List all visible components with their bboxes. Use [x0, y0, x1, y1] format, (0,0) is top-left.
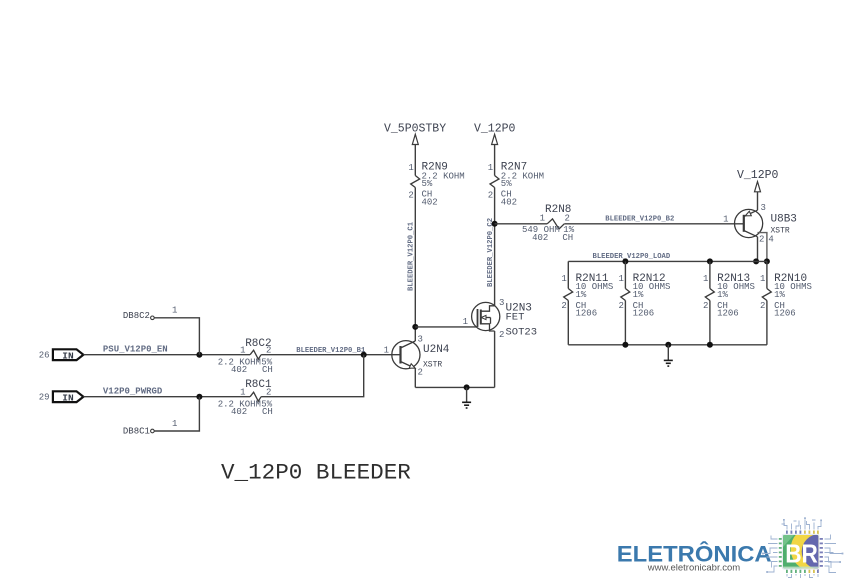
R2N10 value labels	[774, 282, 812, 318]
R2N12 value labels	[633, 282, 671, 318]
svg-text:1: 1	[488, 163, 493, 173]
node dots on load rail under U8B3	[753, 258, 770, 264]
R8C2 pin numbers	[240, 346, 271, 356]
svg-text:2: 2	[760, 301, 765, 311]
svg-text:1206: 1206	[576, 309, 598, 319]
power symbol V_12P0 (top)	[474, 123, 516, 145]
logo chip	[779, 527, 837, 573]
svg-text:1: 1	[561, 274, 566, 284]
wire bottom (U2N4 emitter to FET source)	[415, 386, 494, 388]
svg-text:DB8C1: DB8C1	[123, 427, 150, 437]
wire DB8C1 to PWRGD wire	[154, 397, 199, 431]
svg-text:2: 2	[499, 330, 504, 340]
svg-text:BLEEDER_V12P0_LOAD: BLEEDER_V12P0_LOAD	[593, 253, 671, 261]
wire U2N4 emitter down	[414, 369, 416, 388]
svg-text:U8B3: U8B3	[771, 214, 797, 226]
wire FET source down	[494, 331, 496, 387]
svg-text:R2N8: R2N8	[545, 204, 571, 216]
U8B3 pin numbers	[723, 203, 774, 244]
wire rail BLEEDER_V12P0_LOAD	[568, 260, 767, 262]
transistor U8B3 (PNP)	[735, 209, 763, 237]
svg-text:3: 3	[761, 203, 766, 213]
svg-text:PSU_V12P0_EN: PSU_V12P0_EN	[103, 345, 168, 355]
svg-text:DB8C2: DB8C2	[123, 311, 150, 321]
wire V_12P0 to R2N7 pin1	[494, 145, 496, 176]
svg-text:26: 26	[39, 351, 50, 361]
resistor R8C2	[250, 350, 261, 359]
R8C1 pin numbers	[240, 388, 271, 398]
svg-text:2: 2	[618, 301, 623, 311]
node junction R2N7/R2N8	[492, 221, 498, 227]
power symbol V_12P0 (right)	[737, 169, 779, 192]
svg-text:V_12P0 BLEEDER: V_12P0 BLEEDER	[221, 460, 411, 486]
svg-text:2: 2	[408, 191, 413, 201]
wire R2N9 pin2 to node BLEEDER_V12P0_C1	[414, 188, 416, 342]
svg-text:XSTR: XSTR	[423, 360, 442, 369]
resistor R2N8	[547, 219, 564, 229]
node dots on load rail	[622, 258, 713, 264]
node junction DB8C1/PWRGD	[196, 394, 202, 400]
transistor U2N3 (N-MOSFET)	[472, 302, 500, 331]
node dots on bottom rail	[622, 342, 713, 348]
wire V_12P0 to U8B3 emitter	[757, 192, 759, 210]
svg-text:402: 402	[422, 197, 438, 207]
node junction ground	[464, 384, 470, 390]
svg-text:2: 2	[703, 301, 708, 311]
svg-text:2: 2	[759, 234, 764, 244]
svg-text:IN: IN	[62, 350, 74, 361]
R2N8 pin numbers	[540, 214, 570, 224]
node junction U2N4 collector / gate wire	[412, 324, 418, 330]
resistor R2N11 column	[564, 261, 573, 344]
wire U2N4 collector junction to FET gate	[415, 326, 477, 328]
R8C1 value labels	[218, 399, 273, 417]
svg-text:IN: IN	[62, 392, 74, 403]
testpoint DB8C1	[123, 427, 154, 437]
R2N8 value labels	[522, 225, 575, 243]
svg-text:XSTR: XSTR	[771, 227, 790, 236]
R2N13 pin numbers	[703, 274, 708, 311]
svg-text:www.eletronicabr.com: www.eletronicabr.com	[647, 563, 740, 574]
ground (resistor bank)	[664, 345, 673, 366]
wire R2N7 pin2 down to FET drain	[494, 188, 496, 307]
wire R8C2 pin2 to U2N4 base	[261, 354, 400, 356]
svg-text:1: 1	[408, 163, 413, 173]
svg-text:402: 402	[231, 365, 247, 375]
svg-text:1: 1	[723, 215, 728, 225]
svg-text:2: 2	[488, 191, 493, 201]
ground (bottom)	[462, 387, 471, 408]
resistor R2N9	[411, 176, 420, 188]
svg-text:29: 29	[39, 393, 50, 403]
svg-text:3: 3	[418, 335, 423, 345]
svg-text:1: 1	[760, 274, 765, 284]
wire V12P0_PWRGD	[83, 396, 250, 398]
resistor R2N12 column	[621, 261, 630, 344]
svg-text:1: 1	[172, 419, 177, 429]
R2N13 value labels	[717, 282, 755, 318]
svg-text:1: 1	[463, 317, 468, 327]
node junction B1	[361, 352, 367, 358]
wire bottom rail of resistor bank	[568, 344, 767, 346]
svg-text:BLEEDER_V12P0_C2: BLEEDER_V12P0_C2	[487, 218, 495, 287]
svg-text:V12P0_PWRGD: V12P0_PWRGD	[103, 387, 163, 397]
svg-text:1%: 1%	[774, 290, 785, 300]
wire R8C1 pin2 to B1 junction	[261, 355, 364, 397]
svg-text:1: 1	[172, 306, 177, 316]
transistor U2N4 (NPN)	[392, 341, 420, 369]
svg-text:1: 1	[384, 346, 389, 356]
svg-text:FET: FET	[506, 312, 525, 324]
svg-text:5%: 5%	[422, 179, 433, 189]
svg-text:402: 402	[231, 407, 247, 417]
R2N11 value labels	[576, 282, 614, 318]
svg-text:1: 1	[703, 274, 708, 284]
svg-text:1206: 1206	[633, 309, 655, 319]
resistor R2N10 column	[762, 261, 771, 344]
node junction DB8C2/EN	[196, 352, 202, 358]
logo chip traces	[762, 517, 843, 578]
svg-text:1%: 1%	[576, 290, 587, 300]
svg-text:1206: 1206	[774, 309, 796, 319]
U2N4 pin numbers	[384, 335, 423, 378]
port pin 26 IN	[39, 349, 84, 361]
testpoint DB8C2	[123, 311, 154, 321]
svg-text:SOT23: SOT23	[506, 327, 538, 339]
svg-text:R8C1: R8C1	[245, 379, 272, 391]
svg-text:1: 1	[618, 274, 623, 284]
wire U8B3 pin4 L-shape	[758, 233, 767, 262]
resistor R8C1	[250, 392, 261, 401]
svg-text:CH: CH	[262, 365, 273, 375]
svg-text:1%: 1%	[717, 290, 728, 300]
R2N11 pin numbers	[561, 274, 566, 311]
svg-text:BR: BR	[785, 538, 818, 568]
svg-text:BLEEDER_V12P0_B1: BLEEDER_V12P0_B1	[296, 347, 366, 355]
R2N9 pin numbers	[408, 163, 413, 201]
wire U8B3 collector pin2 down	[757, 237, 759, 262]
wire node to R2N8 pin1	[495, 223, 548, 225]
svg-text:5%: 5%	[501, 179, 512, 189]
svg-text:3: 3	[499, 298, 504, 308]
svg-text:402: 402	[501, 197, 517, 207]
svg-text:402: 402	[532, 233, 548, 243]
R2N10 pin numbers	[760, 274, 765, 311]
R2N7 value labels	[501, 172, 544, 208]
R2N7 pin numbers	[488, 163, 493, 201]
svg-text:4: 4	[768, 234, 773, 244]
svg-text:V_12P0: V_12P0	[737, 169, 779, 182]
wire R2N8 pin2 to U8B3 base	[564, 223, 744, 225]
wire DB8C2 to EN wire	[154, 318, 199, 355]
R2N12 pin numbers	[618, 274, 623, 311]
svg-text:R8C2: R8C2	[245, 338, 271, 350]
svg-text:CH: CH	[262, 407, 273, 417]
svg-text:2: 2	[561, 301, 566, 311]
wire V_5P0STBY to R2N9 pin1	[414, 145, 416, 176]
U2N3 pin numbers	[499, 298, 504, 340]
svg-text:U2N4: U2N4	[423, 344, 450, 356]
R2N9 value labels	[422, 172, 465, 208]
wire PSU_V12P0_EN	[83, 354, 250, 356]
svg-text:BLEEDER_V12P0_B2: BLEEDER_V12P0_B2	[605, 216, 674, 224]
resistor R2N7	[490, 176, 499, 188]
logo ELETRONICA BR wordmark	[617, 541, 772, 573]
svg-text:CH: CH	[562, 233, 573, 243]
port pin 29 IN	[39, 391, 84, 403]
U2N3 value labels FET / SOT23	[506, 312, 538, 339]
svg-text:1206: 1206	[717, 309, 739, 319]
R8C2 value labels	[218, 357, 273, 375]
resistor R2N13 column	[705, 261, 714, 344]
svg-text:1%: 1%	[633, 290, 644, 300]
power symbol V_5P0STBY	[384, 123, 446, 145]
svg-text:BLEEDER_V12P0_C1: BLEEDER_V12P0_C1	[408, 221, 416, 291]
